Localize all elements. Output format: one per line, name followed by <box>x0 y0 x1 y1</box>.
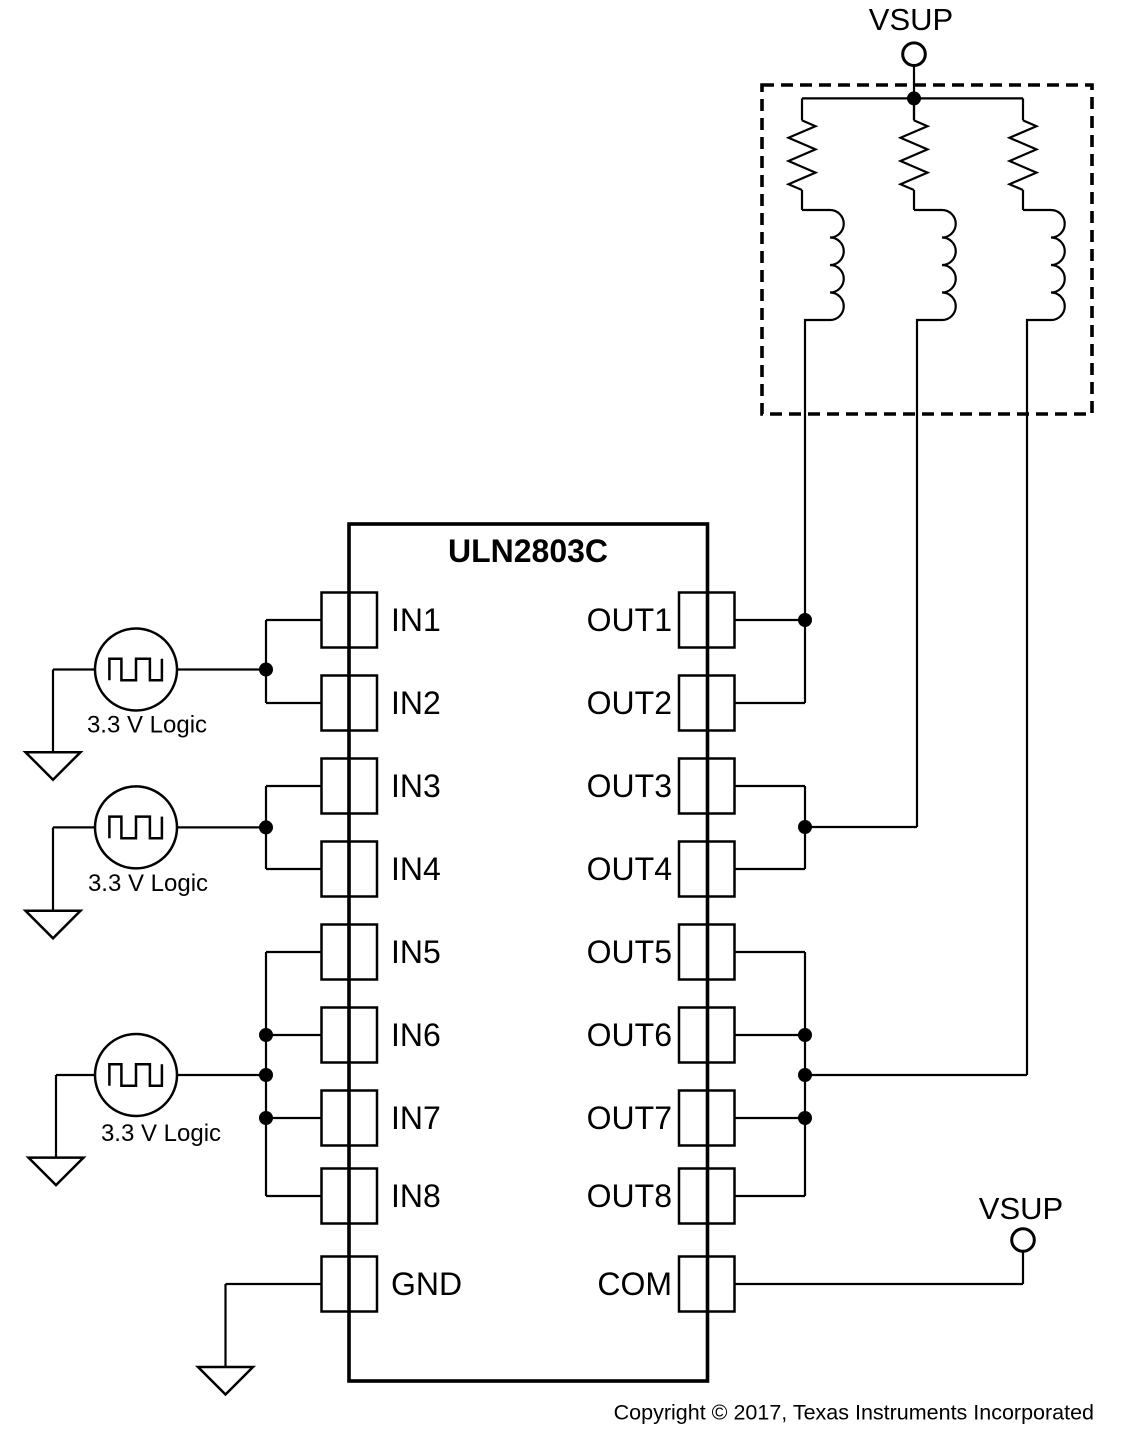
svg-text:IN8: IN8 <box>391 1178 441 1214</box>
svg-text:VSUP: VSUP <box>869 2 953 37</box>
svg-text:3.3 V Logic: 3.3 V Logic <box>87 712 207 739</box>
svg-text:COM: COM <box>597 1266 672 1302</box>
svg-text:OUT8: OUT8 <box>587 1178 672 1214</box>
svg-text:3.3 V Logic: 3.3 V Logic <box>101 1120 221 1147</box>
svg-text:GND: GND <box>391 1266 462 1302</box>
svg-text:3.3 V Logic: 3.3 V Logic <box>88 870 208 897</box>
svg-text:OUT5: OUT5 <box>587 934 672 970</box>
svg-text:OUT3: OUT3 <box>587 768 672 804</box>
svg-text:ULN2803C: ULN2803C <box>448 533 608 569</box>
svg-text:VSUP: VSUP <box>979 1191 1063 1226</box>
svg-text:OUT7: OUT7 <box>587 1100 672 1136</box>
svg-text:Copyright © 2017, Texas Instru: Copyright © 2017, Texas Instruments Inco… <box>614 1401 1094 1425</box>
svg-text:IN6: IN6 <box>391 1017 441 1053</box>
svg-text:IN7: IN7 <box>391 1100 441 1136</box>
svg-text:IN2: IN2 <box>391 685 441 721</box>
svg-text:OUT1: OUT1 <box>587 602 672 638</box>
svg-text:IN3: IN3 <box>391 768 441 804</box>
svg-text:IN4: IN4 <box>391 851 441 887</box>
svg-text:OUT2: OUT2 <box>587 685 672 721</box>
svg-text:OUT4: OUT4 <box>587 851 672 887</box>
svg-text:IN5: IN5 <box>391 934 441 970</box>
svg-text:IN1: IN1 <box>391 602 441 638</box>
svg-text:OUT6: OUT6 <box>587 1017 672 1053</box>
